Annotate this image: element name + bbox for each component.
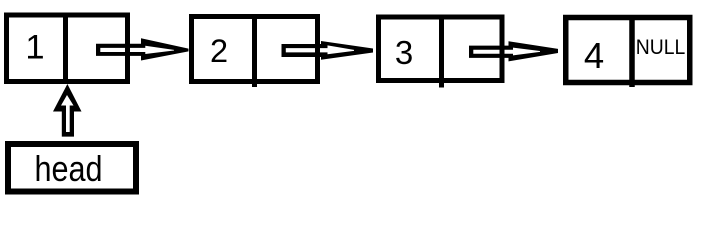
svg-text:head: head: [35, 148, 103, 189]
svg-text:2: 2: [210, 33, 228, 69]
arrow from node 2 to node 3: [282, 41, 374, 60]
arrow from node 3 to node 4: [469, 41, 558, 61]
node 2 divider: [252, 14, 257, 87]
node 3 divider: [439, 15, 444, 88]
node 4 divider: [629, 15, 635, 87]
svg-text:3: 3: [395, 34, 413, 71]
node 1 divider: [63, 13, 68, 85]
arrow from node 1 to node 2: [96, 38, 189, 60]
head box: [8, 144, 136, 192]
node 1 box: [7, 15, 128, 82]
up arrow from head box to node 1: [53, 84, 82, 137]
node 3 box: [379, 17, 503, 81]
svg-text:4: 4: [584, 35, 604, 76]
svg-text:NULL: NULL: [636, 36, 686, 59]
node 4 box: [566, 18, 690, 83]
svg-text:1: 1: [25, 29, 44, 67]
node 2 box: [192, 17, 318, 82]
